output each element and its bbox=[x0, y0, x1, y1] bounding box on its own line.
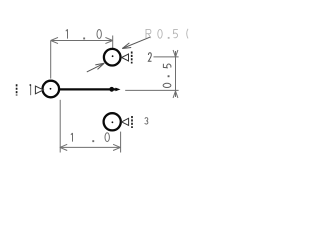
pad 1 center dot bbox=[50, 88, 52, 90]
top dimension text 1 . 0 bbox=[66, 29, 102, 39]
pad 3 center dot bbox=[112, 121, 114, 123]
pin marker dashed bar right of pad 3 bbox=[131, 116, 133, 128]
R 0.5 ( note text bbox=[146, 29, 188, 39]
pin marker dashed bar right of pad 2 bbox=[131, 52, 133, 64]
net line from pad 1 bbox=[60, 88, 117, 90]
leader arrow upper right to pad 2 bbox=[122, 37, 151, 49]
terminal triangle pad 2 bbox=[122, 54, 129, 61]
pad 2 center dot bbox=[112, 55, 114, 57]
pin marker dashed bar left of pad 1 bbox=[16, 84, 18, 95]
bottom dimension 1.0 bbox=[60, 100, 121, 153]
right vertical dimension 0.5 bbox=[125, 50, 178, 98]
top dimension 1.0 bbox=[51, 36, 113, 79]
right dimension text 0.5 rotated bbox=[163, 64, 171, 88]
pad 3 (bottom right) bbox=[104, 113, 121, 130]
terminal triangle pad 1 bbox=[35, 86, 43, 94]
pin number 2 bbox=[148, 53, 151, 62]
junction dot on net line bbox=[109, 87, 114, 92]
terminal triangle pad 3 bbox=[122, 118, 129, 125]
pin number 3 bbox=[145, 118, 148, 125]
net line arrow tip bbox=[116, 88, 121, 92]
pad 2 (top right) bbox=[104, 49, 121, 66]
leader arrow lower left to pad 2 bbox=[87, 63, 104, 72]
bottom dimension text 1 . 0 bbox=[71, 133, 110, 142]
pin number 1 bbox=[29, 84, 31, 95]
pad 1 (left) bbox=[43, 81, 60, 98]
